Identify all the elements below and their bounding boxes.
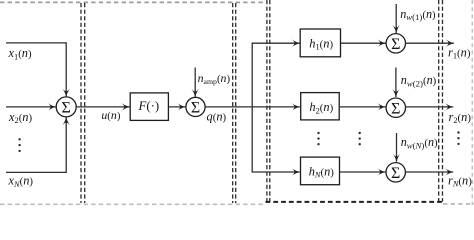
block hN <box>301 157 340 185</box>
noise arrow n_amp <box>194 68 196 97</box>
wire summer R3 out <box>405 171 453 173</box>
noise arrow n_w2 <box>395 68 397 98</box>
wire xN horizontal <box>6 171 66 173</box>
wire u(n) summer to F <box>76 106 129 108</box>
vertical dots left section <box>18 138 20 152</box>
wire h1 to summer R1 <box>341 42 386 44</box>
left box right edge (dashed) <box>80 3 82 203</box>
wire F to summer S1 <box>169 106 186 108</box>
wire q(n) row2 to h2 <box>205 106 300 108</box>
wire branch row1 to h1 <box>252 42 300 44</box>
summer S1 circle <box>186 97 205 116</box>
divider dashed line right of middle box <box>235 3 237 203</box>
block F <box>130 93 168 121</box>
svg-text:F(·): F(·) <box>137 99 159 113</box>
svg-text:xN(n): xN(n) <box>8 174 34 189</box>
block h2 <box>301 93 340 120</box>
right box left edge outer (dashed) <box>266 0 268 202</box>
noise arrow n_w1 <box>395 4 397 33</box>
wire x1 vertical into summer <box>65 42 67 96</box>
noise arrow n_wN <box>396 133 398 162</box>
right box right edge outer (dashed) <box>442 0 444 202</box>
svg-text:h1(n): h1(n) <box>309 37 333 52</box>
svg-text:r1(n): r1(n) <box>448 46 471 61</box>
wire xN vertical into summer <box>65 117 67 173</box>
vertical dots right section column 2 <box>359 132 361 146</box>
svg-text:u(n): u(n) <box>101 108 120 122</box>
middle box right edge (dashed) <box>232 3 234 203</box>
summer S0 circle <box>56 97 76 117</box>
summer R3 circle <box>386 163 405 182</box>
outer grey dashed frame: bottom edge right part <box>443 203 474 205</box>
outer grey dashed frame: bottom edge left part <box>0 203 264 205</box>
svg-text:x1(n): x1(n) <box>8 46 33 61</box>
middle box left edge (dashed) <box>84 3 86 203</box>
right box bottom edge (dark dashed) <box>266 201 444 203</box>
summer R1 circle <box>386 34 405 53</box>
outer grey dashed frame: right edge <box>471 0 473 205</box>
wire h2 to summer R2 <box>339 106 385 108</box>
wire x2 into summer <box>6 106 56 108</box>
svg-text:Σ: Σ <box>391 36 400 53</box>
vertical dots right section column 1 <box>317 132 319 146</box>
svg-text:x2(n): x2(n) <box>8 110 33 125</box>
outer grey dashed frame: top edge <box>0 1 266 3</box>
svg-text:hN(n): hN(n) <box>309 164 335 179</box>
wire branch row3 to hN <box>252 171 300 173</box>
branch vertical wire <box>251 43 253 172</box>
wire summer R1 out <box>406 42 454 44</box>
wire hN to summer R3 <box>340 171 386 173</box>
block h1 <box>300 29 340 57</box>
vertical dots output column <box>457 131 459 145</box>
right box left edge inner (dashed) <box>269 0 271 202</box>
svg-text:Σ: Σ <box>391 165 400 182</box>
wire summer R2 out <box>406 106 454 108</box>
summer R2 circle <box>386 98 405 117</box>
svg-text:rN(n): rN(n) <box>448 174 472 189</box>
svg-text:r2(n): r2(n) <box>449 110 472 125</box>
svg-text:Σ: Σ <box>191 100 200 117</box>
right box right edge inner (dashed) <box>438 0 440 202</box>
wire x1 horizontal <box>6 42 66 44</box>
svg-text:Σ: Σ <box>62 100 71 117</box>
svg-text:q(n): q(n) <box>207 110 227 124</box>
svg-text:Σ: Σ <box>391 100 400 117</box>
svg-text:h2(n): h2(n) <box>309 100 333 115</box>
